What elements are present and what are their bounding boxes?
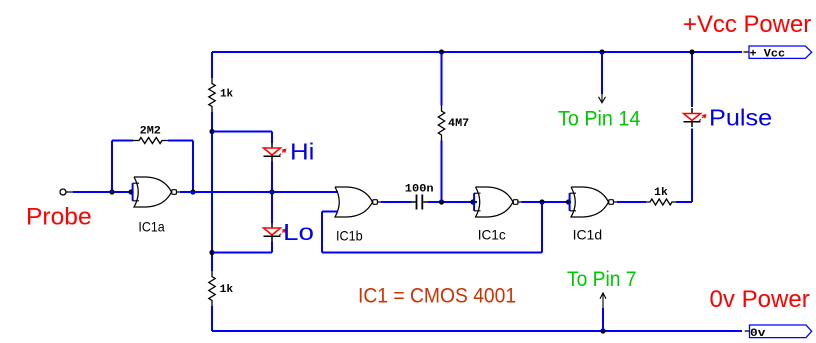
svg-text:+Vcc Power: +Vcc Power (683, 11, 811, 38)
wire 2M2 loop top-right segment (168, 140, 193, 142)
power terminal 0v (flag) (745, 330, 750, 332)
wire Hi LED to output node (271, 162, 273, 193)
wire left chain mid segment (211, 112, 213, 271)
junction 2M2 right leg on IC1a output (190, 189, 195, 194)
op gate IC1b (NOR, 2 inputs) (335, 187, 381, 217)
junction 2M2 left leg on input (109, 189, 114, 194)
wire Lo branch to node B (212, 252, 272, 254)
svg-text:IC1d: IC1d (573, 227, 603, 243)
junction Hi/Lo LED node on output (269, 189, 274, 194)
capacitor C1 100n (411, 201, 416, 203)
wire Hi branch down (271, 132, 273, 144)
svg-text:IC1 = CMOS 4001: IC1 = CMOS 4001 (358, 285, 516, 308)
svg-text:Probe: Probe (26, 204, 92, 231)
junction Pulse branch on Vcc rail (689, 49, 694, 54)
wire To Pin 14 stub (601, 52, 603, 94)
svg-text:0v Power: 0v Power (710, 286, 810, 313)
junction node B (212,252.5) (209, 250, 214, 255)
wire 4M7 top segment (441, 52, 443, 106)
wire Vcc rail (+Vcc net, top) (212, 51, 742, 53)
wire 0v rail (0v net, bottom) (212, 330, 742, 332)
svg-text:Lo: Lo (283, 219, 314, 245)
wire IC1b output to capacitor (381, 201, 411, 203)
wire node A to Hi branch (212, 131, 272, 133)
junction IC1c input node (470, 199, 475, 204)
op gate IC1c (NOR, inputs tied) (474, 187, 521, 217)
svg-text:IC1a: IC1a (138, 219, 164, 235)
svg-text:1k: 1k (654, 187, 668, 199)
svg-text:To Pin 14: To Pin 14 (558, 108, 641, 131)
wire feedback left vertical (321, 212, 323, 253)
LED D1 Hi (red) (271, 143, 273, 149)
junction IC1d input node (566, 199, 571, 204)
svg-text:2M2: 2M2 (140, 126, 161, 138)
svg-text:4M7: 4M7 (448, 118, 469, 130)
wire feedback bottom horizontal (322, 252, 542, 254)
wire Lo LED down (271, 242, 273, 253)
resistor R3 1k (output) (646, 199, 676, 205)
op gate IC1d (NOR, inputs tied) (570, 187, 617, 217)
wire 2M2 loop left vertical (111, 141, 113, 193)
junction IC1a input node (128, 189, 133, 194)
wire output node to Lo LED (271, 192, 273, 223)
junction node A (212,131.5) (209, 129, 214, 134)
svg-text:1k: 1k (220, 89, 233, 101)
wire feedback into IC1b lower input (322, 211, 338, 213)
power terminal +Vcc (flag) (743, 51, 749, 53)
resistor R1 2M2 (feedback) (132, 138, 169, 144)
wire feedback right vertical (541, 202, 543, 253)
junction To-Pin-14 tap on Vcc rail (599, 49, 604, 54)
wire 2M2 loop top-left segment (112, 140, 133, 142)
op gate IC1a (NOR, inputs tied) (133, 177, 180, 207)
resistor R2 4M7 (438, 106, 444, 141)
wire Pulse LED to Vcc rail (691, 52, 693, 107)
junction feedback node at IC1c output (539, 199, 544, 204)
wire IC1a output to IC1b input (180, 191, 338, 193)
wire 1k to Pulse branch corner (676, 201, 692, 203)
wire 4M7 bottom segment (441, 141, 443, 203)
junction 4M7 top on Vcc rail (439, 49, 444, 54)
resistor R top 1k (in left chain) (209, 78, 215, 112)
LED D3 Pulse (red) (691, 108, 693, 114)
wire left bias chain top segment (211, 52, 213, 78)
svg-text:0v: 0v (750, 328, 766, 340)
wire Pulse branch vertical (691, 129, 693, 203)
svg-text:IC1b: IC1b (336, 227, 363, 243)
wire left chain bottom segment (211, 306, 213, 331)
terminal Probe (open circle) (60, 189, 66, 195)
svg-text:100n: 100n (405, 183, 434, 195)
svg-text:Pulse: Pulse (709, 105, 772, 131)
wire IC1d output to 1k (617, 201, 646, 203)
svg-text:To Pin 7: To Pin 7 (567, 268, 637, 291)
wire To Pin 7 stub (602, 308, 604, 331)
wire IC1c output to IC1d input (522, 201, 568, 203)
svg-text:1k: 1k (220, 284, 234, 296)
junction To-Pin-7 tap on 0v rail (600, 328, 605, 333)
junction 4M7 bottom node (439, 199, 444, 204)
arrow To Pin 14 (down) (601, 94, 603, 103)
wire capacitor to IC1c input (428, 201, 473, 203)
wire into IC1c (473, 201, 477, 203)
LED D2 Lo (red) (271, 223, 273, 229)
svg-text:IC1c: IC1c (478, 227, 506, 243)
svg-text:+ Vcc: + Vcc (750, 49, 786, 61)
svg-text:Hi: Hi (290, 139, 314, 165)
arrow To Pin 7 (up) (602, 293, 604, 309)
resistor R bottom 1k (in left chain) (209, 271, 215, 306)
wire 2M2 loop right vertical (192, 141, 194, 193)
wire probe to IC1a input (73, 191, 132, 193)
